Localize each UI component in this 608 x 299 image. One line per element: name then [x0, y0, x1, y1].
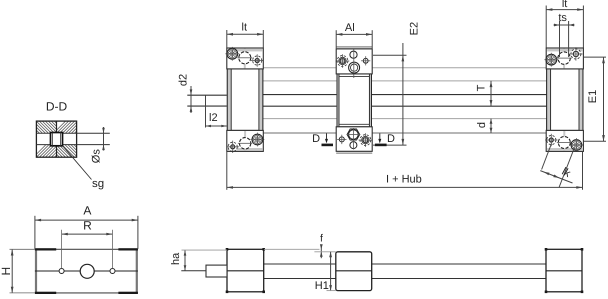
svg-text:D-D: D-D	[46, 100, 68, 114]
svg-text:R: R	[83, 219, 92, 233]
svg-text:I + Hub: I + Hub	[386, 173, 422, 185]
svg-text:Øs: Øs	[90, 149, 102, 164]
svg-text:l2: l2	[209, 112, 218, 124]
svg-text:E2: E2	[409, 22, 421, 35]
svg-text:lt: lt	[242, 21, 248, 33]
svg-text:A: A	[83, 204, 91, 218]
svg-text:f: f	[320, 232, 323, 244]
svg-text:H: H	[0, 267, 13, 276]
svg-text:D: D	[312, 133, 320, 145]
svg-text:D: D	[387, 133, 395, 145]
svg-text:d: d	[476, 122, 488, 128]
svg-text:sg: sg	[92, 178, 104, 190]
svg-text:Al: Al	[345, 22, 355, 34]
svg-text:ha: ha	[170, 252, 182, 265]
svg-text:T: T	[475, 84, 487, 91]
svg-text:d2: d2	[178, 74, 190, 86]
svg-text:lt: lt	[562, 0, 568, 10]
svg-text:E1: E1	[587, 90, 599, 103]
